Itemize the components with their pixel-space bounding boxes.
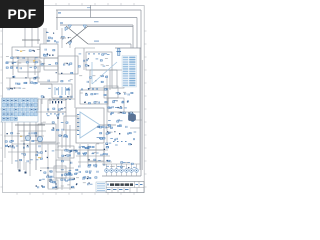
- title block cells: [106, 182, 144, 193]
- wire bl v24: [23, 122, 25, 158]
- pin number row: [46, 113, 64, 116]
- wire h48 mid: [75, 47, 95, 49]
- wire v20 low: [19, 160, 21, 170]
- box circuit B: [18, 60, 40, 72]
- wire h88: [6, 87, 20, 89]
- wire h66: [10, 65, 38, 67]
- box br1: [88, 150, 104, 161]
- box circuit C: [40, 44, 58, 58]
- wire v70: [69, 125, 71, 148]
- box bottom-mid: [58, 146, 74, 158]
- diode D201: [65, 27, 68, 31]
- label L201: [94, 41, 99, 42]
- wire right drop C: [132, 25, 134, 48]
- wire bl v36: [35, 122, 37, 170]
- wire v32: [31, 28, 33, 47]
- wire bus3: [60, 24, 133, 26]
- transformer crossover wires: [66, 26, 88, 44]
- comparator U201 triangle: [92, 62, 117, 84]
- yellow mark bottom-mid: [38, 157, 41, 158]
- junction dots ladder: [23, 135, 56, 184]
- dark pads bottom-left: [19, 170, 27, 174]
- box note: [48, 180, 58, 189]
- component cluster mid-right: [79, 75, 108, 104]
- wire ladder v24: [23, 124, 25, 170]
- junction dot v58: [57, 117, 59, 119]
- box mid left: [38, 124, 56, 142]
- wire br v104: [103, 144, 105, 166]
- wire ladder v56: [55, 144, 57, 190]
- wire bus2: [56, 17, 137, 19]
- wire v42b: [41, 98, 43, 104]
- signal table left: [2, 98, 39, 122]
- box bottom small: [54, 166, 66, 178]
- box circuit A: [12, 47, 40, 57]
- IC pin stubs dark: [52, 101, 62, 103]
- box bottom-mid2: [56, 160, 70, 172]
- wire ladder h168: [40, 167, 74, 169]
- box mid right: [64, 116, 78, 130]
- component cluster bottom-mid-left: [37, 151, 55, 178]
- wire v90 bus link: [90, 5, 92, 18]
- wire xfmr left: [60, 37, 66, 39]
- component cluster bottom-left2: [15, 153, 38, 162]
- yellow mark bottom-left: [20, 136, 22, 138]
- wire h156r: [76, 155, 110, 157]
- border frame outer: [3, 6, 145, 193]
- component cluster center: [43, 107, 68, 137]
- wire ladder h136: [4, 135, 44, 137]
- component cluster bottom edge: [36, 179, 74, 189]
- title left small mark: [107, 184, 109, 186]
- wire v30b: [29, 78, 31, 84]
- wire ladder h178: [56, 177, 75, 179]
- wire v44: [43, 28, 45, 44]
- wire v50b: [49, 98, 51, 104]
- wire bl v12: [11, 122, 13, 164]
- wire h143: [37, 142, 60, 144]
- wire h84 dark: [40, 83, 52, 85]
- component cluster bottom-mid-low: [61, 172, 78, 186]
- wire table stub: [37, 99, 39, 110]
- wire h58: [10, 57, 42, 59]
- wire right h48: [115, 47, 141, 49]
- component cluster bottom-right: [78, 146, 111, 167]
- wire ladder v30: [29, 124, 31, 176]
- output transistor row line: [102, 175, 141, 177]
- wire bl v42: [41, 122, 43, 158]
- transistor Q101: [25, 135, 30, 140]
- wire v84: [83, 48, 85, 70]
- amp pin marks: [77, 114, 79, 135]
- wire h62: [8, 61, 42, 63]
- wire v13: [12, 57, 14, 75]
- notes specks: [49, 181, 55, 189]
- relay dark box: [129, 115, 136, 121]
- wire v46: [45, 28, 47, 44]
- box regulator: [86, 52, 112, 70]
- title block frame: [106, 182, 144, 193]
- component cluster bottom-mid-right: [61, 150, 78, 177]
- pin numbers top of regulator: [88, 53, 105, 56]
- wire h131: [18, 130, 46, 132]
- box comparator area: [90, 70, 117, 88]
- wire xfmr top out: [88, 26, 133, 28]
- wire h150r: [78, 149, 108, 151]
- wire bl v18: [17, 122, 19, 170]
- wire h162r: [78, 161, 112, 163]
- wire xfmr bot out: [88, 43, 131, 45]
- wire h99: [38, 98, 75, 100]
- wire v107 long: [106, 75, 108, 145]
- component cluster top-mid: [46, 32, 72, 44]
- box IC area: [58, 56, 78, 74]
- component cluster right of amp: [96, 126, 113, 150]
- wire h128r: [130, 127, 140, 129]
- box ic2: [80, 90, 108, 104]
- component cluster left-mid: [8, 76, 38, 90]
- wire h125: [15, 124, 45, 126]
- wire v25: [24, 28, 26, 47]
- wire v75 long: [74, 48, 76, 108]
- wire ladder v36: [35, 124, 37, 170]
- output transistor row bus top: [102, 163, 140, 165]
- wire right drop B: [136, 18, 138, 49]
- connector pin table right: [122, 56, 137, 88]
- wire ladder h152: [8, 151, 36, 153]
- wire ladder v70: [69, 150, 71, 190]
- wire bl v30: [29, 122, 31, 164]
- wire v66: [65, 112, 67, 150]
- title text FORD DOGE (CAR): [110, 183, 133, 186]
- wire v110: [109, 70, 111, 90]
- wire v62: [61, 131, 63, 148]
- transistor Q102: [37, 136, 42, 141]
- wire h78: [6, 77, 40, 79]
- component cluster above titleblock: [76, 170, 98, 185]
- wire v41: [40, 99, 42, 125]
- wire v62t: [61, 28, 63, 48]
- revision table: [96, 182, 106, 192]
- wire h120r: [136, 119, 142, 121]
- wire right margin v140: [139, 48, 141, 170]
- wire ladder v62: [61, 150, 63, 190]
- fuse F201: [117, 49, 122, 56]
- wire right drop A: [140, 10, 142, 176]
- component cluster below pin table: [113, 92, 133, 103]
- wire ladder h144: [12, 143, 58, 145]
- wire ladder v48: [47, 144, 49, 188]
- box circuit D: [44, 58, 58, 70]
- component cluster mid-upper: [78, 53, 109, 67]
- wire bl v5: [4, 122, 6, 158]
- border frame ticks: [0, 3, 146, 195]
- pin labels above transistors: [106, 162, 135, 169]
- wire v131: [130, 44, 132, 48]
- wire h40 dark: [22, 39, 40, 41]
- yellow LED dots: [20, 51, 35, 62]
- resistor pack RP1: [52, 84, 72, 100]
- wire v10: [9, 78, 11, 88]
- wire br v88: [87, 144, 89, 166]
- crossover arrowheads: [61, 25, 87, 45]
- PDF badge: [0, 0, 44, 28]
- component cluster upper-left: [6, 50, 40, 70]
- box ic4: [108, 98, 124, 112]
- wire ladder v18: [17, 124, 19, 168]
- wire right margin v142: [141, 60, 143, 170]
- box power amp: [76, 108, 104, 143]
- box right small: [112, 70, 124, 88]
- wire v35: [34, 57, 36, 75]
- wire v28: [27, 57, 29, 78]
- wire h112r: [124, 111, 140, 113]
- wire amp out: [100, 124, 116, 126]
- wire left stub: [56, 10, 58, 30]
- title block entries: [107, 184, 143, 190]
- components in box C: [44, 49, 55, 57]
- power amp triangle U301: [80, 112, 100, 138]
- wire h112: [36, 111, 66, 113]
- wire v38: [37, 28, 39, 44]
- wire bus1: [56, 9, 141, 11]
- wire v70t: [69, 44, 71, 48]
- box circuit E: [38, 66, 58, 82]
- net labels on bus: [58, 7, 99, 23]
- pin numbers 4321: [113, 140, 127, 143]
- component cluster right-mid: [107, 106, 136, 145]
- component cluster bottom-left: [5, 132, 40, 148]
- wire ladder h188: [56, 187, 75, 189]
- box mid IC: [48, 100, 66, 112]
- wire v26 low: [25, 162, 27, 172]
- wire h150: [55, 149, 77, 151]
- wire v58: [57, 104, 59, 148]
- box ic3: [104, 86, 118, 98]
- wire br v96: [95, 144, 97, 166]
- output transistors Q401-Q407: [105, 164, 139, 176]
- component cluster mid-left: [41, 63, 73, 98]
- wire br v80: [79, 144, 81, 166]
